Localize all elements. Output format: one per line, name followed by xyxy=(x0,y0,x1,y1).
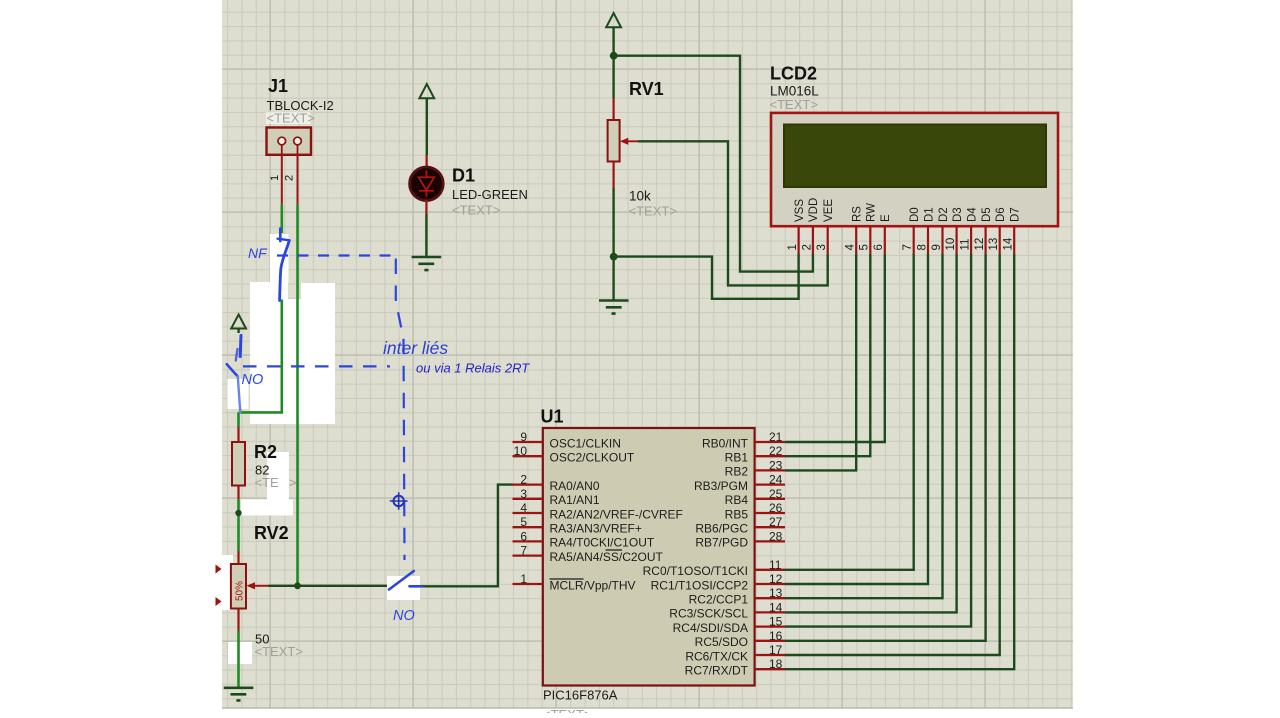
white-out patch behind center NO switch xyxy=(387,576,420,600)
svg-text:RB3/PGM: RB3/PGM xyxy=(694,479,748,493)
svg-text:VDD: VDD xyxy=(808,198,820,222)
R2 bottom stub xyxy=(237,486,239,500)
svg-text:<TEXT>: <TEXT> xyxy=(629,204,677,219)
svg-text:D4: D4 xyxy=(966,207,978,222)
U1 pin 13 stub xyxy=(755,597,785,599)
svg-text:28: 28 xyxy=(769,529,783,543)
wire J1 pin1 upper segment xyxy=(280,205,283,233)
wire wiper net left part xyxy=(269,585,387,587)
svg-text:inter liés: inter liés xyxy=(383,338,448,358)
U1 pin 4 stub xyxy=(513,512,543,514)
svg-text:6: 6 xyxy=(520,529,527,543)
RV2 adjust arrow up xyxy=(216,565,222,574)
svg-text:RC6/TX/CK: RC6/TX/CK xyxy=(685,649,748,663)
wire VCC node to RV1 xyxy=(612,58,614,98)
RV2 adjust arrow down xyxy=(216,597,222,606)
junction VSS node xyxy=(610,253,618,261)
LCD2 pin 12 stub xyxy=(984,226,986,254)
svg-text:17: 17 xyxy=(769,643,783,657)
dashed link lower horizontal xyxy=(243,365,390,367)
svg-text:MCLR/Vpp/THV: MCLR/Vpp/THV xyxy=(550,578,636,592)
svg-text:PIC16F876A: PIC16F876A xyxy=(543,688,618,703)
svg-text:D2: D2 xyxy=(938,207,950,222)
svg-text:9: 9 xyxy=(520,430,527,444)
white-out patch behind left NO switch xyxy=(228,379,249,409)
U1 pin 22 stub xyxy=(755,455,785,457)
U1 pin 16 stub xyxy=(755,640,785,642)
U1 pin 9 stub xyxy=(513,441,543,443)
wire RV2 to ground xyxy=(237,631,240,688)
svg-text:RA3/AN3/VREF+: RA3/AN3/VREF+ xyxy=(550,522,642,536)
RV1 top stub xyxy=(612,98,614,120)
svg-text:D1: D1 xyxy=(923,207,935,222)
wire J1 pin2 down to wiper net xyxy=(296,205,299,586)
svg-text:13: 13 xyxy=(988,238,1000,251)
wire VSS net xyxy=(617,254,799,299)
svg-text:23: 23 xyxy=(769,458,783,472)
D1 cathode stub xyxy=(425,200,427,214)
svg-text:RC4/SDI/SDA: RC4/SDI/SDA xyxy=(673,621,748,635)
white-out patch big middle xyxy=(288,299,301,424)
svg-text:RA1/AN1: RA1/AN1 xyxy=(550,493,600,507)
U1 pin 11 stub xyxy=(755,569,785,571)
svg-text:RA5/AN4/SS/C2OUT: RA5/AN4/SS/C2OUT xyxy=(550,550,664,564)
LCD2 body xyxy=(771,113,1058,226)
svg-text:OSC2/CLKOUT: OSC2/CLKOUT xyxy=(550,451,635,465)
LCD2 pin 10 stub xyxy=(955,226,957,254)
svg-text:RB0/INT: RB0/INT xyxy=(702,436,749,450)
svg-text:LED-GREEN: LED-GREEN xyxy=(452,187,528,202)
wire RC4 to LCD D4 xyxy=(785,254,971,627)
svg-text:<TEXT>: <TEXT> xyxy=(452,203,500,218)
svg-text:12: 12 xyxy=(769,572,783,586)
D1 anode stub xyxy=(426,155,428,168)
LCD2 pin 3 stub xyxy=(827,226,829,254)
svg-text:26: 26 xyxy=(769,501,783,515)
svg-text:RC7/RX/DT: RC7/RX/DT xyxy=(685,664,749,678)
wire R2 to RV2 xyxy=(237,499,240,551)
LCD2 pin 13 stub xyxy=(999,226,1001,254)
svg-text:2: 2 xyxy=(520,473,527,487)
U1 pin 23 stub xyxy=(755,469,785,471)
LCD2 pin 9 stub xyxy=(941,226,943,254)
ground symbol bottom left xyxy=(224,688,254,701)
U1 SS overline xyxy=(606,549,623,551)
svg-text:RB7/PGD: RB7/PGD xyxy=(695,536,748,550)
svg-text:RC0/T1OSO/T1CKI: RC0/T1OSO/T1CKI xyxy=(643,564,748,578)
svg-text:VSS: VSS xyxy=(794,199,806,222)
svg-text:RB5: RB5 xyxy=(725,507,749,521)
LCD2 screen xyxy=(784,125,1046,188)
wire RC3 to LCD D3 xyxy=(785,254,957,612)
schematic sheet background grid xyxy=(222,0,1073,708)
U1 pin 10 stub xyxy=(513,455,543,457)
white-out patch over NF switch top xyxy=(270,234,289,283)
RV1 wiper arrow xyxy=(626,140,639,142)
svg-text:RB6/PGC: RB6/PGC xyxy=(695,522,748,536)
potentiometer RV2 body xyxy=(231,564,246,609)
svg-text:13: 13 xyxy=(769,586,783,600)
svg-text:10: 10 xyxy=(514,444,528,458)
svg-text:10k: 10k xyxy=(629,189,651,204)
svg-text:3: 3 xyxy=(520,487,527,501)
wire RC7 to LCD D7 xyxy=(785,254,1014,669)
svg-text:1: 1 xyxy=(269,175,281,181)
svg-text:1: 1 xyxy=(520,572,527,586)
U1 pin 21 stub xyxy=(755,441,785,443)
svg-text:RS: RS xyxy=(852,206,864,222)
svg-text:<TEXT>: <TEXT> xyxy=(255,644,303,659)
svg-text:24: 24 xyxy=(769,473,783,487)
svg-text:<TEXT>: <TEXT> xyxy=(267,111,315,126)
wire RV1 to ground node xyxy=(612,188,614,301)
J1 pin 2 stub xyxy=(297,155,299,205)
RV2 bottom stub xyxy=(237,609,239,631)
RV1 bottom stub xyxy=(612,162,614,189)
wire RC1 to LCD D1 xyxy=(785,254,928,584)
svg-text:NO: NO xyxy=(242,372,264,388)
svg-text:15: 15 xyxy=(769,615,783,629)
svg-text:11: 11 xyxy=(769,558,782,572)
wire RB1 to LCD RW xyxy=(785,254,870,456)
svg-text:12: 12 xyxy=(974,238,986,251)
J1 TEXT highlight backing xyxy=(266,112,310,124)
wire J1 pin1 lower segment to node xyxy=(239,300,282,413)
wire wiper net right part to RA0 xyxy=(420,485,513,587)
svg-text:RB1: RB1 xyxy=(725,451,749,465)
wire RC2 to LCD D2 xyxy=(785,254,943,598)
svg-text:RA0/AN0: RA0/AN0 xyxy=(550,479,600,493)
U1 pin 28 stub xyxy=(755,540,785,542)
svg-text:NF: NF xyxy=(248,245,268,261)
svg-text:D3: D3 xyxy=(952,207,964,222)
svg-text:4: 4 xyxy=(845,244,857,251)
svg-text:7: 7 xyxy=(902,244,914,250)
U1 MCLR overline xyxy=(550,578,584,580)
junction below R2 xyxy=(235,510,241,516)
LCD2 pin 2 stub xyxy=(812,226,814,254)
svg-text:27: 27 xyxy=(769,515,783,529)
svg-text:RV1: RV1 xyxy=(629,79,664,99)
U1 pin 24 stub xyxy=(755,483,785,485)
svg-text:E: E xyxy=(880,214,892,222)
svg-text:D1: D1 xyxy=(452,166,475,186)
svg-text:50%: 50% xyxy=(235,581,246,601)
resistor R2 xyxy=(232,442,245,486)
NF switch strokes xyxy=(278,229,290,301)
svg-text:10: 10 xyxy=(945,238,957,251)
svg-text:RB2: RB2 xyxy=(725,465,749,479)
power symbol above D1 xyxy=(419,84,434,155)
svg-text:2: 2 xyxy=(801,244,813,250)
LCD2 pin 11 stub xyxy=(970,226,972,254)
ground symbol below RV1 xyxy=(599,301,629,314)
LCD2 pin 6 stub xyxy=(884,226,886,254)
svg-text:8: 8 xyxy=(916,244,928,250)
LCD2 pin 1 stub xyxy=(797,226,799,254)
junction VCC node xyxy=(610,52,618,60)
dashed vertical interlock line xyxy=(396,259,405,561)
svg-text:RA4/T0CKI/C1OUT: RA4/T0CKI/C1OUT xyxy=(550,536,655,550)
LCD2 pin 14 stub xyxy=(1013,226,1015,254)
svg-text:5: 5 xyxy=(520,515,527,529)
LCD2 pin 4 stub xyxy=(855,226,857,254)
center NO switch strokes xyxy=(389,571,422,590)
svg-text:2: 2 xyxy=(284,175,296,181)
wire RC0 to LCD D0 xyxy=(785,254,914,570)
svg-text:5: 5 xyxy=(859,244,871,250)
ground symbol below D1 xyxy=(412,257,442,270)
svg-text:RC3/SCK/SCL: RC3/SCK/SCL xyxy=(669,607,748,621)
svg-text:D0: D0 xyxy=(909,207,921,222)
U1 pin 14 stub xyxy=(755,611,785,613)
U1 pin 3 stub xyxy=(513,498,543,500)
wire VEE net xyxy=(638,141,828,285)
svg-text:ou via 1 Relais 2RT: ou via 1 Relais 2RT xyxy=(416,361,530,376)
connector J1 xyxy=(267,128,312,155)
U1 pin 12 stub xyxy=(755,583,785,585)
U1 pin 27 stub xyxy=(755,526,785,528)
svg-text:RB4: RB4 xyxy=(725,493,749,507)
svg-text:<TEXT>: <TEXT> xyxy=(543,707,591,713)
svg-text:>: > xyxy=(289,475,297,490)
wire RC6 to LCD D6 xyxy=(785,254,1000,655)
wire node to R2 top xyxy=(237,412,240,427)
white-out patch over R2 TEXT xyxy=(267,452,289,515)
U1 pin 7 stub xyxy=(513,554,543,556)
left NO switch strokes xyxy=(227,336,241,413)
wire VDD net xyxy=(617,56,813,272)
svg-text:D6: D6 xyxy=(995,207,1007,222)
white-out patch big left xyxy=(250,282,288,424)
svg-text:9: 9 xyxy=(931,244,943,250)
wire RB0 to LCD E xyxy=(785,254,885,442)
svg-text:D7: D7 xyxy=(1010,207,1022,222)
svg-text:25: 25 xyxy=(769,487,783,501)
svg-text:RA2/AN2/VREF-/CVREF: RA2/AN2/VREF-/CVREF xyxy=(550,507,683,521)
svg-text:<TE: <TE xyxy=(255,475,280,490)
white-out patch arm below R2 xyxy=(241,499,293,515)
power symbol above RV1 xyxy=(606,13,621,53)
svg-text:R2: R2 xyxy=(254,442,277,462)
white-out patch bottom left xyxy=(228,642,252,664)
LCD2 pin 7 stub xyxy=(913,226,915,254)
white-out patch big right xyxy=(301,283,335,424)
svg-text:16: 16 xyxy=(769,629,783,643)
svg-text:LCD2: LCD2 xyxy=(770,64,817,84)
wire RB2 to LCD RS xyxy=(785,254,856,470)
U1 pin 2 stub xyxy=(513,483,543,485)
R2 top stub xyxy=(237,427,239,442)
svg-text:NO: NO xyxy=(393,608,415,624)
potentiometer RV1 body xyxy=(608,120,620,162)
svg-text:RC2/CCP1: RC2/CCP1 xyxy=(689,593,749,607)
U1 pin 6 stub xyxy=(513,540,543,542)
wire D1 to ground xyxy=(425,214,427,257)
U1 pin 5 stub xyxy=(513,526,543,528)
svg-text:11: 11 xyxy=(960,239,972,251)
svg-text:4: 4 xyxy=(520,501,527,515)
svg-text:18: 18 xyxy=(769,657,783,671)
svg-text:6: 6 xyxy=(873,244,885,250)
U1 pin 15 stub xyxy=(755,625,785,627)
svg-text:3: 3 xyxy=(816,244,828,250)
svg-text:1: 1 xyxy=(787,244,799,250)
svg-text:OSC1/CLKIN: OSC1/CLKIN xyxy=(550,436,621,450)
dashed link NF to vertical xyxy=(277,254,395,256)
svg-text:RW: RW xyxy=(866,203,878,222)
U1 pin 17 stub xyxy=(755,654,785,656)
svg-text:14: 14 xyxy=(1003,237,1015,250)
white-out patch at pot left margin xyxy=(222,555,233,610)
wire RC5 to LCD D5 xyxy=(785,254,986,641)
junction wiper with J1 pin2 xyxy=(294,582,301,589)
U1 pin 1 stub xyxy=(513,583,543,585)
svg-text:D5: D5 xyxy=(981,207,993,222)
microcontroller U1 body xyxy=(543,428,755,686)
svg-text:7: 7 xyxy=(520,544,527,558)
svg-text:RV2: RV2 xyxy=(254,523,289,543)
LED D1 xyxy=(410,167,444,201)
svg-text:RC1/T1OSI/CCP2: RC1/T1OSI/CCP2 xyxy=(651,578,749,592)
LCD2 pin 8 stub xyxy=(927,226,929,254)
U1 pin 26 stub xyxy=(755,512,785,514)
RV2 wiper arrow xyxy=(253,585,269,587)
svg-text:22: 22 xyxy=(769,444,783,458)
J1 pin 1 stub xyxy=(281,155,283,205)
power symbol above left NO switch xyxy=(231,315,246,334)
svg-text:<TEXT>: <TEXT> xyxy=(770,97,818,112)
U1 pin 25 stub xyxy=(755,498,785,500)
svg-text:RC5/SDO: RC5/SDO xyxy=(695,635,748,649)
RV2 top stub xyxy=(237,551,239,564)
svg-text:U1: U1 xyxy=(541,407,564,427)
U1 pin 18 stub xyxy=(755,668,785,670)
svg-text:J1: J1 xyxy=(268,76,288,96)
LCD2 pin 5 stub xyxy=(869,226,871,254)
svg-text:14: 14 xyxy=(769,600,783,614)
interlock target symbol xyxy=(390,492,408,510)
svg-text:21: 21 xyxy=(769,430,783,444)
svg-text:VEE: VEE xyxy=(823,199,835,222)
